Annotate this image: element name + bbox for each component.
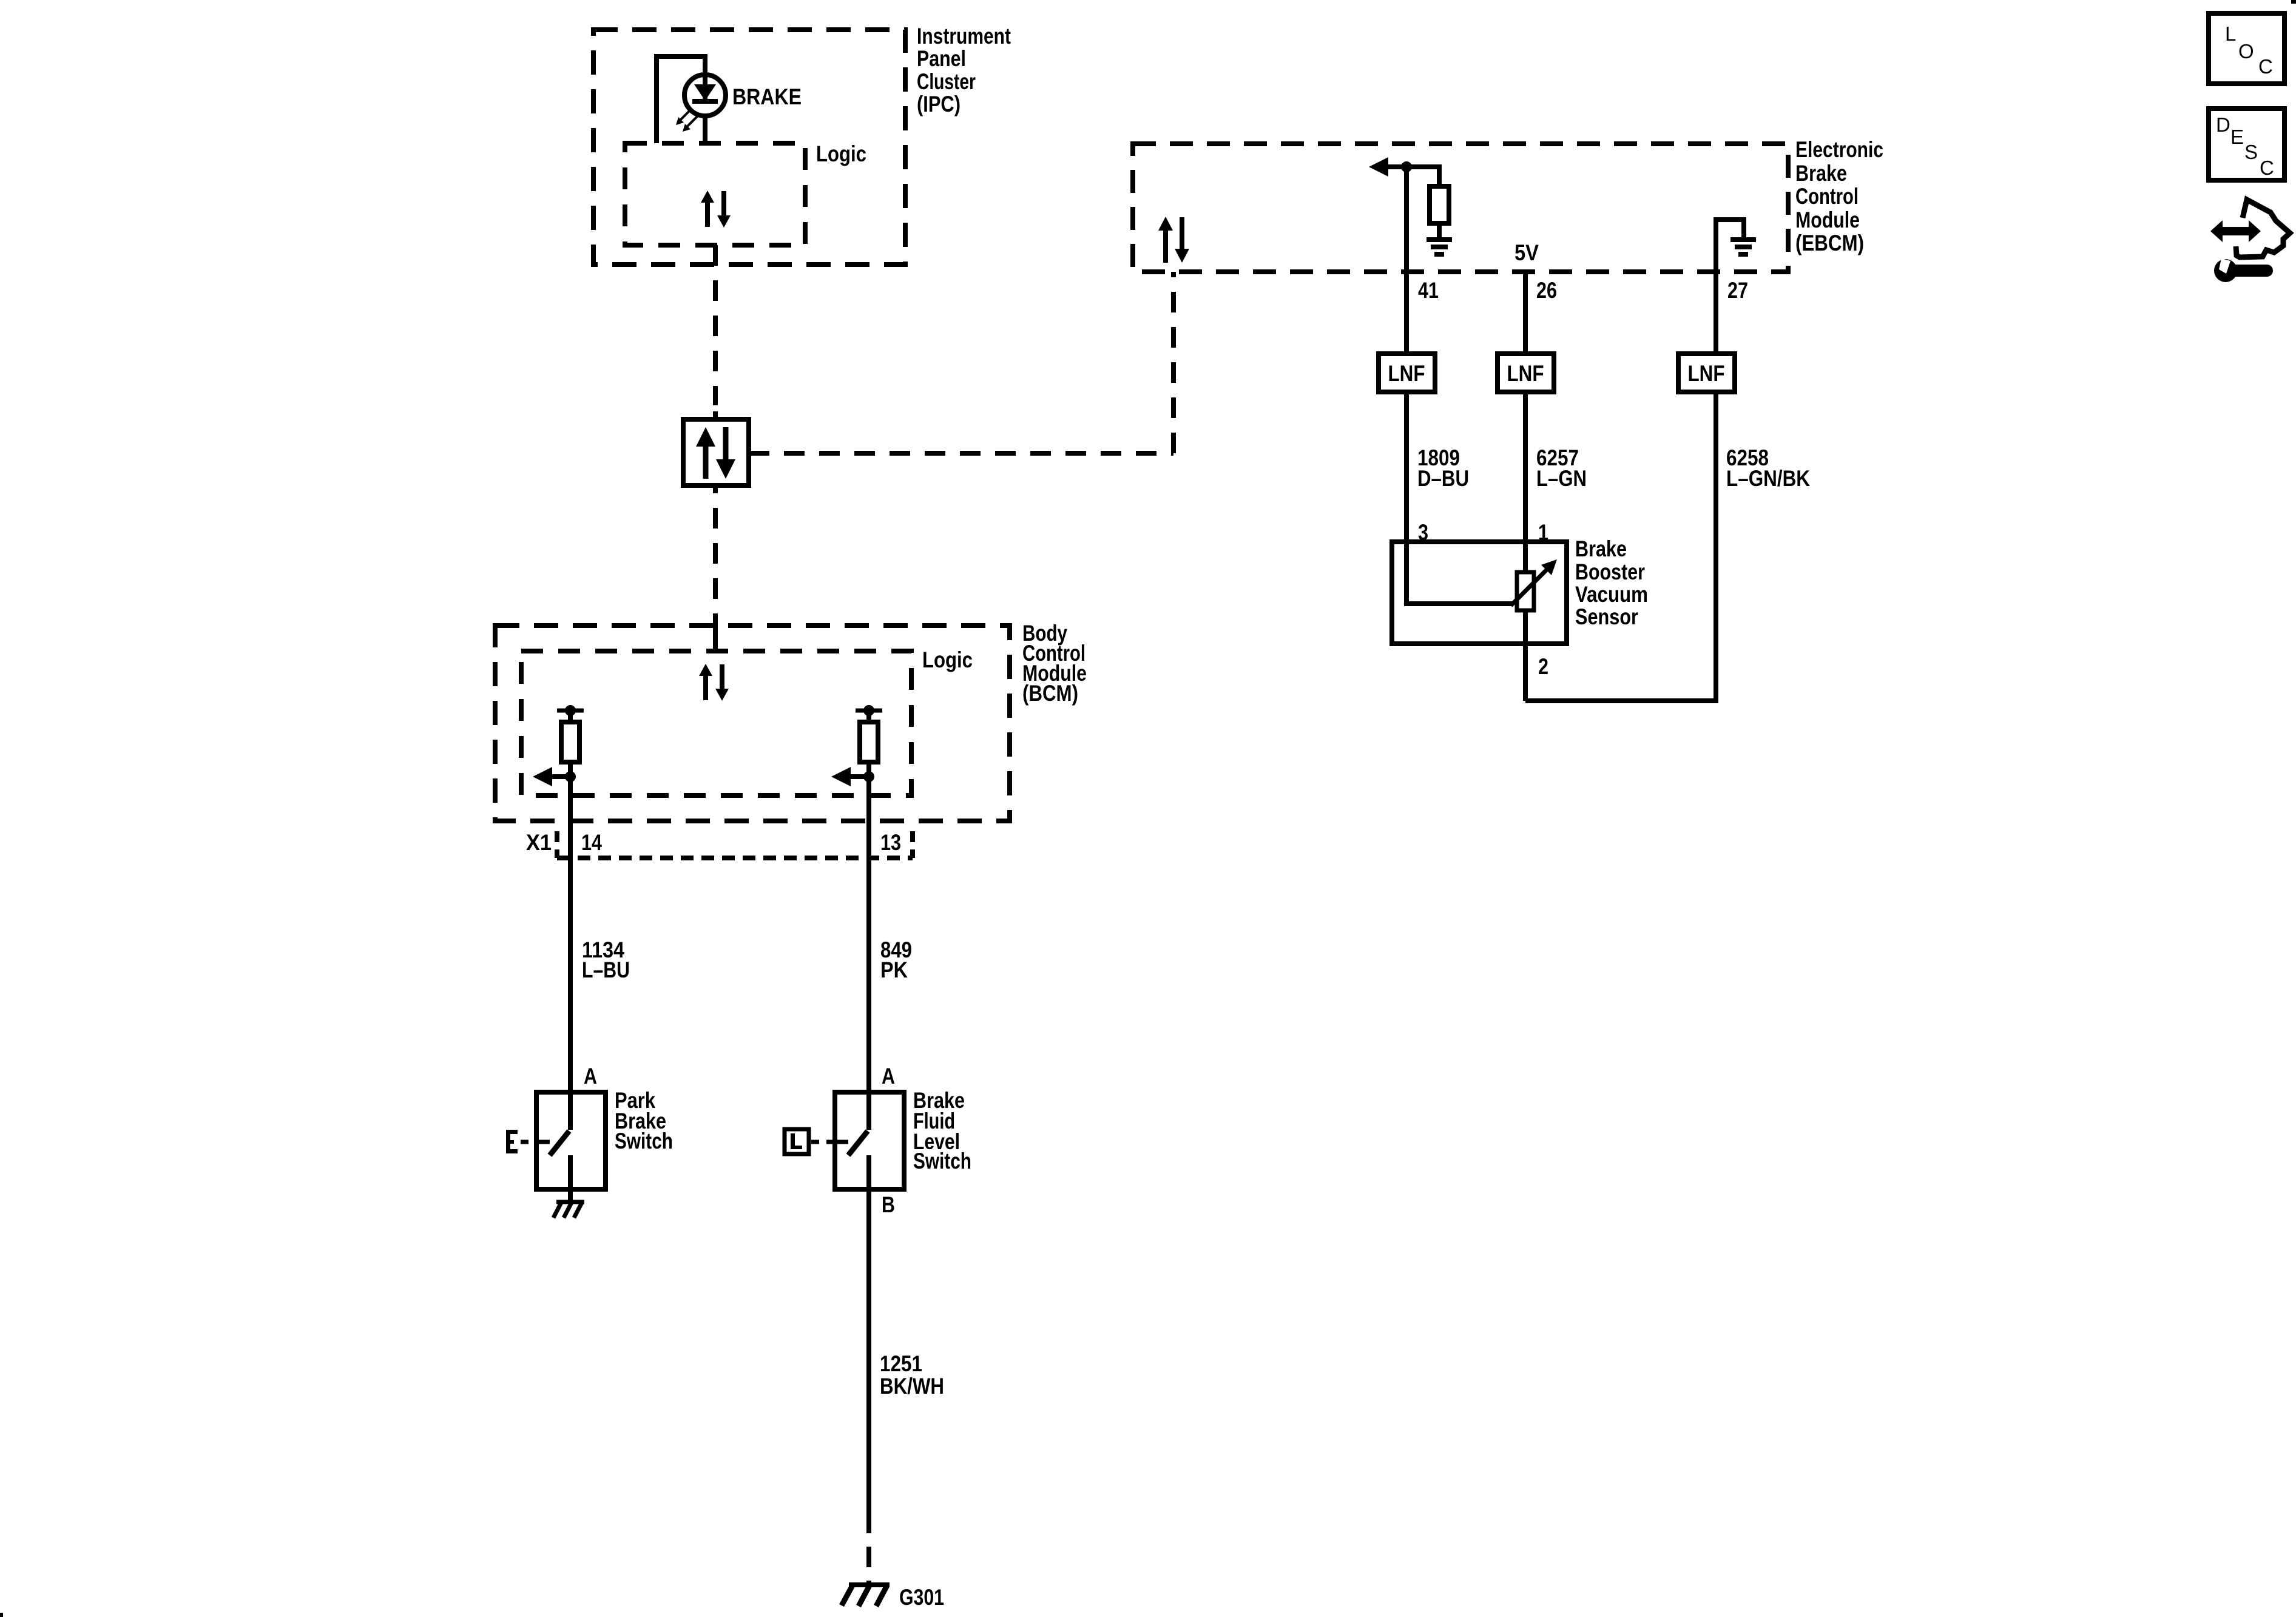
svg-text:Cluster: Cluster <box>917 69 976 94</box>
svg-text:1251: 1251 <box>880 1351 922 1376</box>
park brake switch label <box>615 1088 673 1153</box>
svg-text:LNF: LNF <box>1688 361 1725 386</box>
EBCM output arrow (signal to left) <box>1369 157 1406 177</box>
fluid switch blade <box>848 1131 868 1155</box>
wire resistor to junction (right) <box>866 762 871 777</box>
fluid switch fixed contact <box>866 1155 871 1189</box>
svg-text:LNF: LNF <box>1507 361 1544 386</box>
svg-text:C: C <box>2258 55 2273 78</box>
Brake Fluid Level Switch box <box>835 1092 904 1189</box>
serial data gateway box <box>683 419 749 485</box>
page corner mark top right <box>2291 0 2296 4</box>
svg-text:14: 14 <box>581 830 602 855</box>
service icon double arrow <box>2210 220 2261 242</box>
park switch pivot line <box>536 1140 550 1144</box>
wire junction to pull-up resistor <box>1406 167 1439 186</box>
connector X1 left tick <box>555 831 559 858</box>
svg-text:Control: Control <box>1795 184 1859 209</box>
BCM label <box>1022 621 1087 706</box>
svg-text:D–BU: D–BU <box>1417 466 1469 491</box>
junction dot right <box>863 771 874 782</box>
Brake Booster Vacuum Sensor box <box>1392 542 1567 644</box>
serial data wire stub at gateway top <box>713 411 718 419</box>
svg-text:A: A <box>584 1064 597 1089</box>
svg-text:G301: G301 <box>899 1585 944 1610</box>
wire 1251 dashed segment to ground <box>866 1513 871 1585</box>
svg-text:Booster: Booster <box>1575 559 1645 584</box>
BCM logic bidirectional arrows <box>699 664 729 701</box>
LOC legend box <box>2209 13 2284 84</box>
svg-text:L–GN/BK: L–GN/BK <box>1726 466 1810 491</box>
svg-text:Brake: Brake <box>1795 161 1847 186</box>
svg-text:(EBCM): (EBCM) <box>1795 231 1864 255</box>
svg-text:PK: PK <box>880 957 908 982</box>
svg-text:E: E <box>2230 126 2244 148</box>
svg-text:(IPC): (IPC) <box>917 92 961 116</box>
svg-text:Sensor: Sensor <box>1575 604 1638 629</box>
svg-text:A: A <box>882 1064 895 1089</box>
svg-text:Instrument: Instrument <box>917 24 1011 49</box>
LNF option box wire 6257 <box>1497 354 1554 392</box>
wire pin 27 vertical <box>1714 272 1718 354</box>
Body Control Module (BCM) box <box>495 626 1010 821</box>
svg-text:Electronic: Electronic <box>1795 137 1883 162</box>
BCM left pull-up supply bar <box>557 709 584 713</box>
wire 1251 label <box>880 1351 944 1399</box>
IPC Logic box <box>625 143 805 245</box>
wire resistor to junction (left) <box>568 762 573 777</box>
connector X1 right tick <box>910 831 915 858</box>
park switch chassis ground <box>553 1202 584 1218</box>
Park Brake Switch box <box>536 1092 606 1189</box>
service icon hand outline <box>2236 200 2290 257</box>
svg-text:Brake: Brake <box>1575 536 1627 561</box>
fluid switch pivot line <box>835 1140 848 1144</box>
svg-text:L–BU: L–BU <box>582 957 630 982</box>
svg-text:C: C <box>2260 157 2274 179</box>
E actuator symbol <box>506 1130 518 1153</box>
serial data wire vertical up to EBCM (dashed) <box>1171 272 1176 453</box>
wire 1809 label <box>1417 445 1469 491</box>
svg-text:Panel: Panel <box>917 46 966 71</box>
brake fluid level switch label <box>913 1088 971 1173</box>
svg-text:Switch: Switch <box>615 1129 673 1153</box>
svg-text:Logic: Logic <box>922 647 973 672</box>
serial data wire gateway to EBCM horizontal (dashed) <box>749 451 1173 456</box>
E actuator dashed link <box>521 1140 536 1144</box>
sensor internal wire pin 3 <box>1406 542 1512 604</box>
DESC legend box <box>2209 109 2284 180</box>
svg-text:26: 26 <box>1536 278 1557 303</box>
svg-text:LNF: LNF <box>1388 361 1425 386</box>
wire loop to BRAKE indicator <box>657 56 705 143</box>
wire 6258 label <box>1726 445 1810 491</box>
wire resistor to ground <box>1437 223 1442 238</box>
wire 6258 L-GN/BK <box>1525 392 1716 701</box>
svg-text:Module: Module <box>1795 208 1860 232</box>
BCM right supply dot <box>863 705 874 716</box>
serial data wire gateway to BCM (dashed) <box>713 485 718 623</box>
svg-text:Vacuum: Vacuum <box>1575 582 1648 607</box>
svg-text:41: 41 <box>1418 278 1439 303</box>
wire 1251 BK/WH <box>866 1189 871 1513</box>
LNF option box wire 6258 <box>1678 354 1735 392</box>
svg-text:BRAKE: BRAKE <box>732 84 802 109</box>
L actuator dashed link <box>811 1140 835 1144</box>
IPC logic bidirectional arrows <box>701 191 731 228</box>
park switch fixed contact <box>568 1155 573 1202</box>
wire 849 label <box>880 937 912 982</box>
sensor label <box>1575 536 1648 629</box>
serial data wire into BCM logic (solid crossing) <box>713 623 718 651</box>
svg-text:B: B <box>882 1192 895 1217</box>
junction dot pin 41 node <box>1401 161 1412 172</box>
wire pin 26 vertical <box>1523 272 1528 354</box>
park switch blade <box>550 1131 569 1155</box>
BCM right input arrow <box>831 767 869 786</box>
page corner mark bottom left <box>0 1613 3 1617</box>
connector X1 bottom dashed line <box>557 856 913 860</box>
svg-text:(BCM): (BCM) <box>1022 681 1078 706</box>
EBCM internal ground hook (pin 27) <box>1716 220 1744 272</box>
wire supply to resistor (left) <box>568 711 573 722</box>
Instrument Panel Cluster (IPC) module box <box>593 30 905 265</box>
sensor internal wire pin 2 <box>1523 610 1528 701</box>
LNF option box wire 1809 <box>1379 354 1435 392</box>
svg-text:5V: 5V <box>1514 240 1539 265</box>
service icon wrench <box>2214 258 2267 282</box>
BCM right pull-up resistor <box>860 722 878 762</box>
gateway bidirectional arrows <box>696 427 735 479</box>
EBCM internal ground (left) <box>1427 240 1452 254</box>
BCM left pull-up resistor <box>561 722 579 762</box>
wire LED cathode to logic box <box>703 115 707 143</box>
EBCM internal ground (right) <box>1730 240 1756 254</box>
BCM Logic box <box>521 651 911 795</box>
ground G301 <box>842 1585 890 1606</box>
BCM right pull-up supply bar <box>856 709 882 713</box>
svg-text:BK/WH: BK/WH <box>880 1374 944 1399</box>
wire 6257 L-GN <box>1523 392 1528 572</box>
svg-text:S: S <box>2244 141 2258 163</box>
IPC label <box>917 24 1011 116</box>
serial data wire IPC to gateway (dashed) <box>713 245 718 405</box>
EBCM internal resistor <box>1430 186 1449 223</box>
sensor wiper arrow <box>1511 559 1557 606</box>
svg-text:13: 13 <box>880 830 901 855</box>
wire 1809 D-BU <box>1404 392 1409 542</box>
L actuator symbol box <box>785 1129 809 1154</box>
Electronic Brake Control Module (EBCM) box <box>1133 144 1788 272</box>
svg-text:Switch: Switch <box>913 1149 971 1173</box>
sensor variable element <box>1517 572 1534 610</box>
svg-text:2: 2 <box>1538 654 1548 679</box>
BCM left input arrow <box>533 767 570 786</box>
EBCM label <box>1795 137 1883 255</box>
LED light emission arrows <box>676 109 698 132</box>
wire 6257 label <box>1536 445 1587 491</box>
wire 1134 L-BU <box>568 777 573 1130</box>
svg-text:L: L <box>2225 22 2236 45</box>
svg-text:L–GN: L–GN <box>1536 466 1587 491</box>
wire 849 PK <box>866 777 871 1130</box>
BRAKE indicator lamp (LED) <box>684 75 726 116</box>
svg-text:D: D <box>2216 113 2230 136</box>
wire 1134 label <box>582 937 630 982</box>
svg-text:27: 27 <box>1727 278 1748 303</box>
EBCM bidirectional arrows <box>1158 217 1189 263</box>
junction dot left <box>565 771 576 782</box>
svg-text:X1: X1 <box>526 830 552 855</box>
wire supply to resistor (right) <box>866 711 871 722</box>
BCM left supply dot <box>565 705 576 716</box>
svg-text:Logic: Logic <box>816 141 866 166</box>
wire pin 41 vertical <box>1404 167 1409 354</box>
svg-text:O: O <box>2238 40 2254 62</box>
